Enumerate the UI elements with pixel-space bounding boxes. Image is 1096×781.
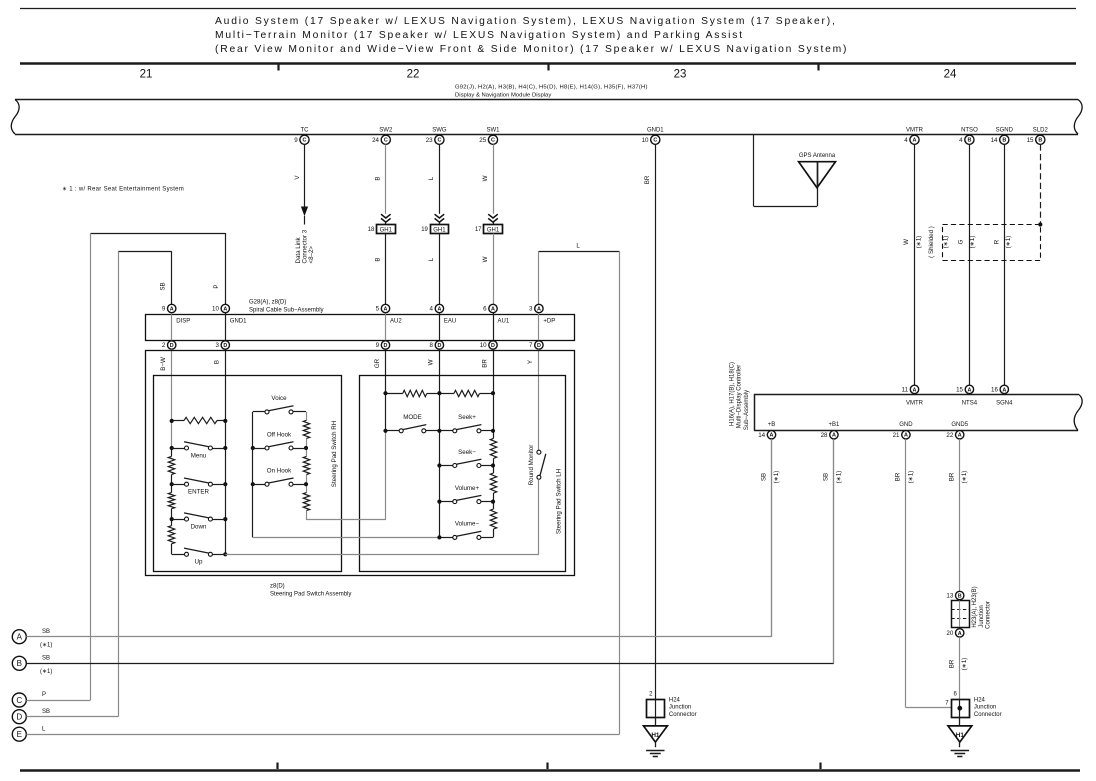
svg-text:10: 10 (212, 306, 219, 313)
wire W from 8(D) (439, 349, 441, 537)
wire through spiral cable at EAU (439, 313, 441, 341)
svg-text:Menu: Menu (191, 452, 207, 459)
resistor R (GR-W row) (386, 390, 440, 396)
wire V from TC pin 9(C) (304, 144, 306, 206)
wire labels SB (*1) +B1 (823, 471, 843, 484)
pin 4(A) spiral cable (430, 304, 444, 312)
wire through spiral cable at DISP (171, 313, 173, 341)
svg-text:24: 24 (944, 69, 957, 81)
svg-text:( Shielded ): ( Shielded ) (928, 226, 935, 258)
component: Steering Pad Switch Assembly box (146, 351, 575, 576)
svg-text:(∗1): (∗1) (40, 669, 52, 675)
shield drain wire from SLD2 15(B) (1040, 144, 1042, 224)
label MODE (403, 414, 422, 421)
svg-text:A: A (537, 306, 541, 312)
svg-text:B: B (375, 176, 382, 180)
svg-text:G28(A), z8(D): G28(A), z8(D) (249, 299, 286, 305)
wire label W (428, 359, 435, 365)
wire through spiral cable at AU1 (493, 313, 495, 341)
svg-text:BR: BR (481, 359, 488, 368)
svg-text:Up: Up (195, 559, 203, 566)
label (Shielded) (928, 226, 935, 258)
arrow to Data Link Connector 3 (301, 207, 308, 225)
junction connector H23 box (951, 601, 969, 628)
wire labels BR (*1) GND (895, 471, 915, 484)
wire label P (213, 284, 220, 288)
controller label (730, 362, 750, 430)
svg-text:+B1: +B1 (828, 422, 840, 428)
svg-text:23: 23 (426, 137, 433, 144)
svg-text:3: 3 (215, 342, 219, 349)
svg-text:A: A (958, 433, 962, 439)
label Steering Pad Switch RH (331, 421, 338, 487)
shield chevrons above GH1 19 (435, 214, 445, 224)
svg-text:19: 19 (421, 227, 428, 233)
shield chevrons above GH1 18 (381, 214, 391, 224)
svg-text:22: 22 (407, 69, 420, 81)
diagram title (215, 16, 848, 55)
svg-text:R: R (993, 239, 1000, 244)
pin 4(A) VMTR on module band (904, 127, 923, 144)
label Seek- (458, 449, 476, 456)
svg-text:(∗1): (∗1) (916, 236, 923, 249)
svg-text:+DP: +DP (543, 319, 555, 325)
resistor R (B-W rail 2) (168, 493, 174, 509)
wire label L (lower) (428, 257, 435, 261)
svg-text:VMTR: VMTR (906, 401, 924, 407)
junction connector H24 (right) box (952, 699, 970, 717)
svg-text:(∗1): (∗1) (835, 471, 842, 484)
svg-text:Steering Pad Switch LH: Steering Pad Switch LH (555, 469, 562, 534)
cavity label DISP (176, 319, 190, 325)
svg-text:Multi−Terrain Monitor (17 Spea: Multi−Terrain Monitor (17 Speaker w/ LEX… (215, 30, 744, 41)
svg-text:H24: H24 (669, 697, 681, 703)
bottom tick 3 (819, 763, 821, 770)
svg-text:P: P (213, 284, 220, 288)
node D (to other sheet) (12, 710, 26, 724)
wire label B (lower) (375, 257, 382, 261)
pin 3(A) spiral cable (529, 304, 543, 312)
svg-text:AU1: AU1 (498, 319, 510, 325)
pin 15(A) controller top NTS4 (956, 385, 978, 406)
svg-text:D: D (16, 713, 22, 722)
wire Round Monitor to B rail (538, 479, 540, 554)
shield box (dashed) (943, 225, 1041, 261)
label ENTER (188, 489, 210, 496)
wire R from SGND 14(B) to controller 16(A) (1004, 144, 1006, 385)
node B (to other sheet) (12, 656, 26, 670)
switch Off Hook (253, 442, 306, 450)
pin 4(B) NTSO on module band (959, 127, 978, 144)
wire B-W from 2(D) (171, 349, 173, 448)
svg-text:G: G (958, 239, 965, 244)
svg-text:G92(J), H2(A), H3(B), H4(C), H: G92(J), H2(A), H3(B), H4(C), H5(D), H8(E… (455, 85, 648, 91)
label Seek+ (458, 414, 476, 421)
switch Seek- (439, 459, 493, 467)
node C (to other sheet) (12, 693, 26, 707)
wire B from GH1 to spiral cable (385, 234, 387, 305)
svg-text:SB: SB (823, 473, 830, 481)
pin number 7 at H24 right (945, 701, 949, 707)
svg-text:D: D (384, 343, 388, 349)
pin 14(A) controller bottom +B (758, 422, 775, 439)
svg-text:GND1: GND1 (647, 127, 664, 133)
svg-text:GND1: GND1 (230, 319, 247, 325)
switch Volume- (439, 531, 493, 539)
wire SB below +B (771, 439, 773, 637)
wire Y from 7(D) (538, 349, 540, 450)
component: Steering Pad Switch RH box (154, 376, 342, 572)
svg-text:9: 9 (294, 137, 298, 144)
junction dots B rail (223, 419, 227, 557)
pin 24(C) SW2 on module band (372, 127, 393, 144)
svg-text:A: A (223, 306, 227, 312)
svg-text:21: 21 (140, 69, 153, 81)
section number 21 (140, 69, 153, 81)
wire L node E (26, 734, 619, 736)
wire SB from spiral 9(A) up-left (118, 251, 172, 304)
pin 23(C) SWG on module band (426, 127, 447, 144)
wire BR chain rail (493, 431, 495, 538)
svg-text:25: 25 (479, 137, 486, 144)
svg-text:GND5: GND5 (951, 422, 968, 428)
label Data Link Connector 3 <8-2> (295, 229, 315, 263)
bottom border (20, 769, 1080, 771)
page top border (20, 8, 1076, 10)
H24 left label (669, 697, 697, 718)
svg-text:Down: Down (191, 523, 207, 530)
note *1 (62, 187, 184, 193)
svg-text:C: C (384, 138, 388, 144)
svg-text:D: D (437, 343, 441, 349)
svg-text:GH1: GH1 (380, 227, 393, 233)
svg-text:C: C (437, 138, 441, 144)
wire B rail to Round Monitor (225, 554, 539, 556)
resistor R (BR chain 3) (490, 509, 496, 529)
wire labels R (*1) (993, 236, 1012, 249)
svg-text:Round Monitor: Round Monitor (528, 445, 535, 486)
svg-text:Audio System (17 Speaker w/ LE: Audio System (17 Speaker w/ LEXUS Naviga… (215, 16, 837, 27)
svg-text:SB: SB (42, 709, 50, 715)
svg-text:23: 23 (674, 69, 687, 81)
svg-text:22: 22 (946, 432, 953, 439)
svg-text:MODE: MODE (403, 414, 422, 421)
wire B from 3(D) (225, 349, 227, 554)
svg-text:(∗1): (∗1) (1005, 236, 1012, 249)
svg-text:A: A (437, 306, 441, 312)
svg-text:7: 7 (529, 342, 533, 349)
wire L vertical (grey) to E (619, 251, 621, 734)
wire labels W (*1) (903, 236, 923, 249)
svg-text:Junction: Junction (669, 705, 691, 711)
component: Spiral Cable Sub-Assembly box (146, 315, 575, 341)
svg-text:A: A (832, 433, 836, 439)
svg-text:Junction: Junction (974, 705, 996, 711)
wire label BR (481, 359, 488, 368)
wire label V (294, 175, 301, 180)
pin 9(C) TC on module band (294, 127, 309, 144)
svg-text:(∗1): (∗1) (40, 643, 52, 649)
svg-text:H24: H24 (974, 697, 986, 703)
pin 9(D) spiral cable (376, 341, 390, 349)
svg-text:16: 16 (991, 387, 998, 394)
svg-text:14: 14 (758, 432, 765, 439)
svg-text:SW2: SW2 (379, 127, 393, 133)
junction GH1 box #19 (421, 225, 448, 234)
svg-text:VMTR: VMTR (906, 127, 924, 133)
wire SB node B to +B1 (26, 438, 834, 664)
pin 7(D) spiral cable (529, 341, 543, 349)
pin 20(A) junction connector (946, 629, 963, 637)
labels for node E (42, 726, 46, 732)
label Round Monitor (528, 445, 535, 486)
svg-text:Seek−: Seek− (458, 449, 476, 456)
svg-text:A: A (491, 306, 495, 312)
wire label SB (160, 282, 167, 290)
svg-text:Y: Y (527, 360, 534, 364)
svg-text:15: 15 (956, 387, 963, 394)
svg-text:Multi−Display Controller: Multi−Display Controller (737, 365, 743, 429)
wire voice chain to GR rail (306, 431, 386, 520)
wire label L (576, 244, 580, 250)
svg-text:9: 9 (162, 306, 166, 313)
label Menu (191, 452, 207, 459)
wire W from band to GH1 (493, 144, 495, 213)
svg-text:10: 10 (642, 137, 649, 144)
switch Down (172, 513, 226, 521)
svg-text:GPS Antenna: GPS Antenna (799, 153, 836, 159)
junction GH1 box #18 (368, 225, 396, 234)
wire labels G (*1) (942, 236, 975, 249)
svg-text:z8(D): z8(D) (270, 583, 285, 589)
svg-text:H1: H1 (651, 732, 660, 739)
label Voice (271, 395, 287, 402)
wire W from GH1 to spiral cable (493, 234, 495, 305)
switch Up (184, 548, 225, 556)
svg-text:W: W (482, 256, 489, 262)
wire B from band to GH1 (385, 144, 387, 213)
svg-text:NTSO: NTSO (961, 127, 978, 133)
svg-text:B: B (17, 659, 22, 668)
svg-text:Steering Pad Switch RH: Steering Pad Switch RH (331, 421, 338, 487)
resistor R (W-BR row) (439, 390, 493, 396)
svg-text:EAU: EAU (444, 319, 456, 325)
svg-text:(∗1): (∗1) (961, 471, 968, 484)
svg-text:W: W (903, 239, 910, 245)
svg-text:3: 3 (529, 306, 533, 313)
wire L from band to GH1 (439, 144, 441, 213)
bottom tick 1 (276, 763, 278, 770)
svg-text:D: D (537, 343, 541, 349)
wire SB node A to +B (26, 438, 771, 637)
labels for node A (40, 629, 52, 649)
pin 10(D) spiral cable (480, 341, 497, 349)
pin number 6 at H24 right (953, 691, 957, 697)
wire label B-W (160, 357, 167, 371)
header tick 2 (547, 64, 549, 71)
pin 13(B) junction connector (946, 591, 963, 599)
junction dot MODE on GR rail (383, 429, 387, 433)
svg-text:5: 5 (376, 306, 380, 313)
svg-text:Off Hook: Off Hook (267, 431, 292, 438)
pin 2(D) spiral cable (162, 341, 176, 349)
wire W from VMTR 4(A) to controller 11(A) (914, 144, 916, 385)
svg-text:24: 24 (372, 137, 379, 144)
wire label BR (644, 175, 651, 184)
svg-text:NTS4: NTS4 (962, 401, 978, 407)
junction GH1 box #17 (475, 225, 503, 234)
svg-text:A: A (1002, 387, 1006, 393)
pin 16(A) controller top SGN4 (991, 385, 1013, 406)
ground H1 (right) (948, 726, 972, 757)
svg-text:17: 17 (475, 227, 482, 233)
svg-text:10: 10 (480, 342, 487, 349)
wire label W (lower) (482, 256, 489, 262)
svg-text:4: 4 (430, 306, 434, 313)
cavity label EAU (444, 319, 456, 325)
wire through spiral cable at GND1 (225, 313, 227, 341)
labels for node C (42, 692, 46, 698)
steering pad switch assembly label (270, 583, 351, 597)
component: Display & Navigation Module Display (band) (11, 100, 1082, 135)
svg-text:L: L (428, 257, 435, 261)
svg-text:ENTER: ENTER (188, 489, 210, 496)
svg-text:28: 28 (821, 432, 828, 439)
wire GR from 9(D) (385, 349, 387, 431)
wire BR from 20(A) to H24 (959, 637, 961, 699)
resistor R (voice chain 2) (303, 456, 309, 474)
pin 3(D) spiral cable (215, 341, 229, 349)
svg-text:Connector: Connector (974, 712, 1002, 718)
wire P from spiral 10(A) up-left (91, 233, 226, 304)
resistor R (BR chain 1) (490, 438, 496, 458)
shield chevrons above GH1 17 (488, 214, 498, 224)
svg-text:(∗1): (∗1) (907, 471, 914, 484)
svg-text:15: 15 (1027, 137, 1034, 144)
switch Volume+ (439, 495, 493, 503)
svg-text:SB: SB (760, 473, 767, 481)
svg-text:C: C (491, 138, 495, 144)
wire SB node D (26, 716, 118, 718)
wire label B (upper) (375, 176, 382, 180)
svg-text:SB: SB (42, 656, 50, 662)
svg-text:On Hook: On Hook (267, 468, 292, 475)
switch Voice (253, 406, 306, 414)
svg-text:A: A (904, 433, 908, 439)
ground H1 (left) (644, 726, 668, 757)
section number 23 (674, 69, 687, 81)
svg-text:SWG: SWG (432, 127, 447, 133)
label Off Hook (267, 431, 292, 438)
switch Round Monitor (537, 450, 546, 479)
svg-text:4: 4 (959, 137, 963, 144)
wire G from NTSO 4(B) to controller 15(A) (969, 144, 971, 385)
svg-text:<8–2>: <8–2> (308, 246, 315, 264)
pin 9(A) spiral cable (162, 304, 176, 312)
svg-text:Display & Navigation Module Di: Display & Navigation Module Display (455, 93, 551, 99)
cavity label AU2 (390, 319, 402, 325)
section number 22 (407, 69, 420, 81)
module band label (455, 85, 648, 99)
svg-text:A: A (170, 306, 174, 312)
switch Menu (172, 442, 226, 450)
header tick 3 (817, 64, 819, 71)
labels for node B (40, 656, 52, 676)
pin 6(A) spiral cable (483, 304, 497, 312)
svg-text:SW1: SW1 (486, 127, 500, 133)
wire label Y (527, 360, 534, 364)
pin 15(B) SLD2 on module band (1027, 127, 1049, 144)
svg-text:E: E (17, 730, 22, 739)
svg-text:+B: +B (768, 422, 776, 428)
resistor R (BR chain 2) (490, 473, 496, 493)
svg-text:Volume+: Volume+ (455, 485, 480, 492)
wire B-W rail lower part (172, 448, 185, 555)
svg-text:B: B (214, 360, 221, 364)
wire label B (214, 360, 221, 364)
svg-text:GR: GR (374, 358, 381, 368)
svg-text:GH1: GH1 (487, 227, 500, 233)
svg-text:SB: SB (42, 629, 50, 635)
svg-text:Junction: Junction (979, 605, 985, 627)
svg-text:9: 9 (376, 342, 380, 349)
switch Seek+ (439, 425, 493, 433)
resistor R (voice chain 3) (303, 493, 309, 511)
svg-text:A: A (384, 306, 388, 312)
svg-text:4: 4 (904, 137, 908, 144)
svg-text:13: 13 (946, 593, 953, 600)
GPS Antenna label (799, 153, 836, 159)
svg-text:P: P (42, 692, 46, 698)
resistor R (B-W rail 3) (168, 526, 174, 544)
pin 22(A) controller bottom GND5 (946, 422, 968, 439)
resistor R (voice chain 1) (303, 420, 309, 438)
svg-text:L: L (428, 176, 435, 180)
svg-text:SB: SB (160, 282, 167, 290)
svg-text:Spiral Cable Sub−Assembly: Spiral Cable Sub−Assembly (249, 307, 324, 313)
junction connector H24 (left) box (647, 699, 665, 717)
svg-text:D: D (223, 343, 227, 349)
switch ENTER (172, 478, 226, 486)
wire SB vertical (grey) to D (118, 251, 120, 716)
svg-text:11: 11 (902, 387, 909, 394)
svg-text:8: 8 (430, 342, 434, 349)
svg-text:D: D (491, 343, 495, 349)
wire label W (upper) (482, 175, 489, 181)
svg-text:AU2: AU2 (390, 319, 402, 325)
svg-text:C: C (653, 138, 657, 144)
wire H24 right to ground (959, 717, 961, 726)
svg-text:A: A (958, 631, 962, 637)
resistor R (B-W rail 1) (168, 456, 174, 474)
label Steering Pad Switch LH (555, 469, 562, 534)
wire P vertical (grey) to C (90, 233, 92, 700)
svg-text:A: A (17, 633, 23, 642)
wire H24 left to ground (655, 717, 657, 726)
svg-text:A: A (967, 387, 971, 393)
svg-text:BR: BR (949, 659, 956, 668)
node E (to other sheet) (12, 727, 26, 741)
pin number 2 at H24 left (649, 691, 653, 697)
svg-text:Connector: Connector (669, 712, 697, 718)
svg-text:H23(A), H23(B): H23(A), H23(B) (972, 586, 978, 627)
wire label GR (374, 358, 381, 368)
svg-text:B: B (967, 138, 971, 144)
svg-text:SGND: SGND (996, 127, 1014, 133)
svg-text:W: W (428, 359, 435, 365)
bottom tick 2 (546, 763, 548, 770)
cavity label AU1 (498, 319, 510, 325)
